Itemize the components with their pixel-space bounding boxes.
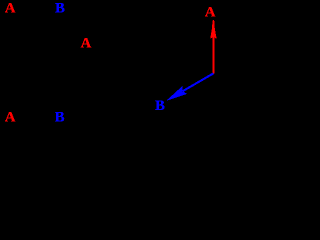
svg-text:A: A <box>5 1 16 17</box>
blue arrow shaft (diagonal, pointing down-left to B) <box>183 73 213 91</box>
svg-text:A: A <box>205 5 216 21</box>
svg-text:A: A <box>5 110 16 126</box>
red arrow shaft (vertical, pointing up to A) <box>212 35 214 74</box>
svg-text:B: B <box>155 98 165 114</box>
svg-text:B: B <box>55 1 65 17</box>
svg-text:A: A <box>81 36 92 52</box>
svg-text:B: B <box>55 110 65 126</box>
blue arrow head <box>167 86 187 100</box>
red arrow head <box>210 20 216 39</box>
